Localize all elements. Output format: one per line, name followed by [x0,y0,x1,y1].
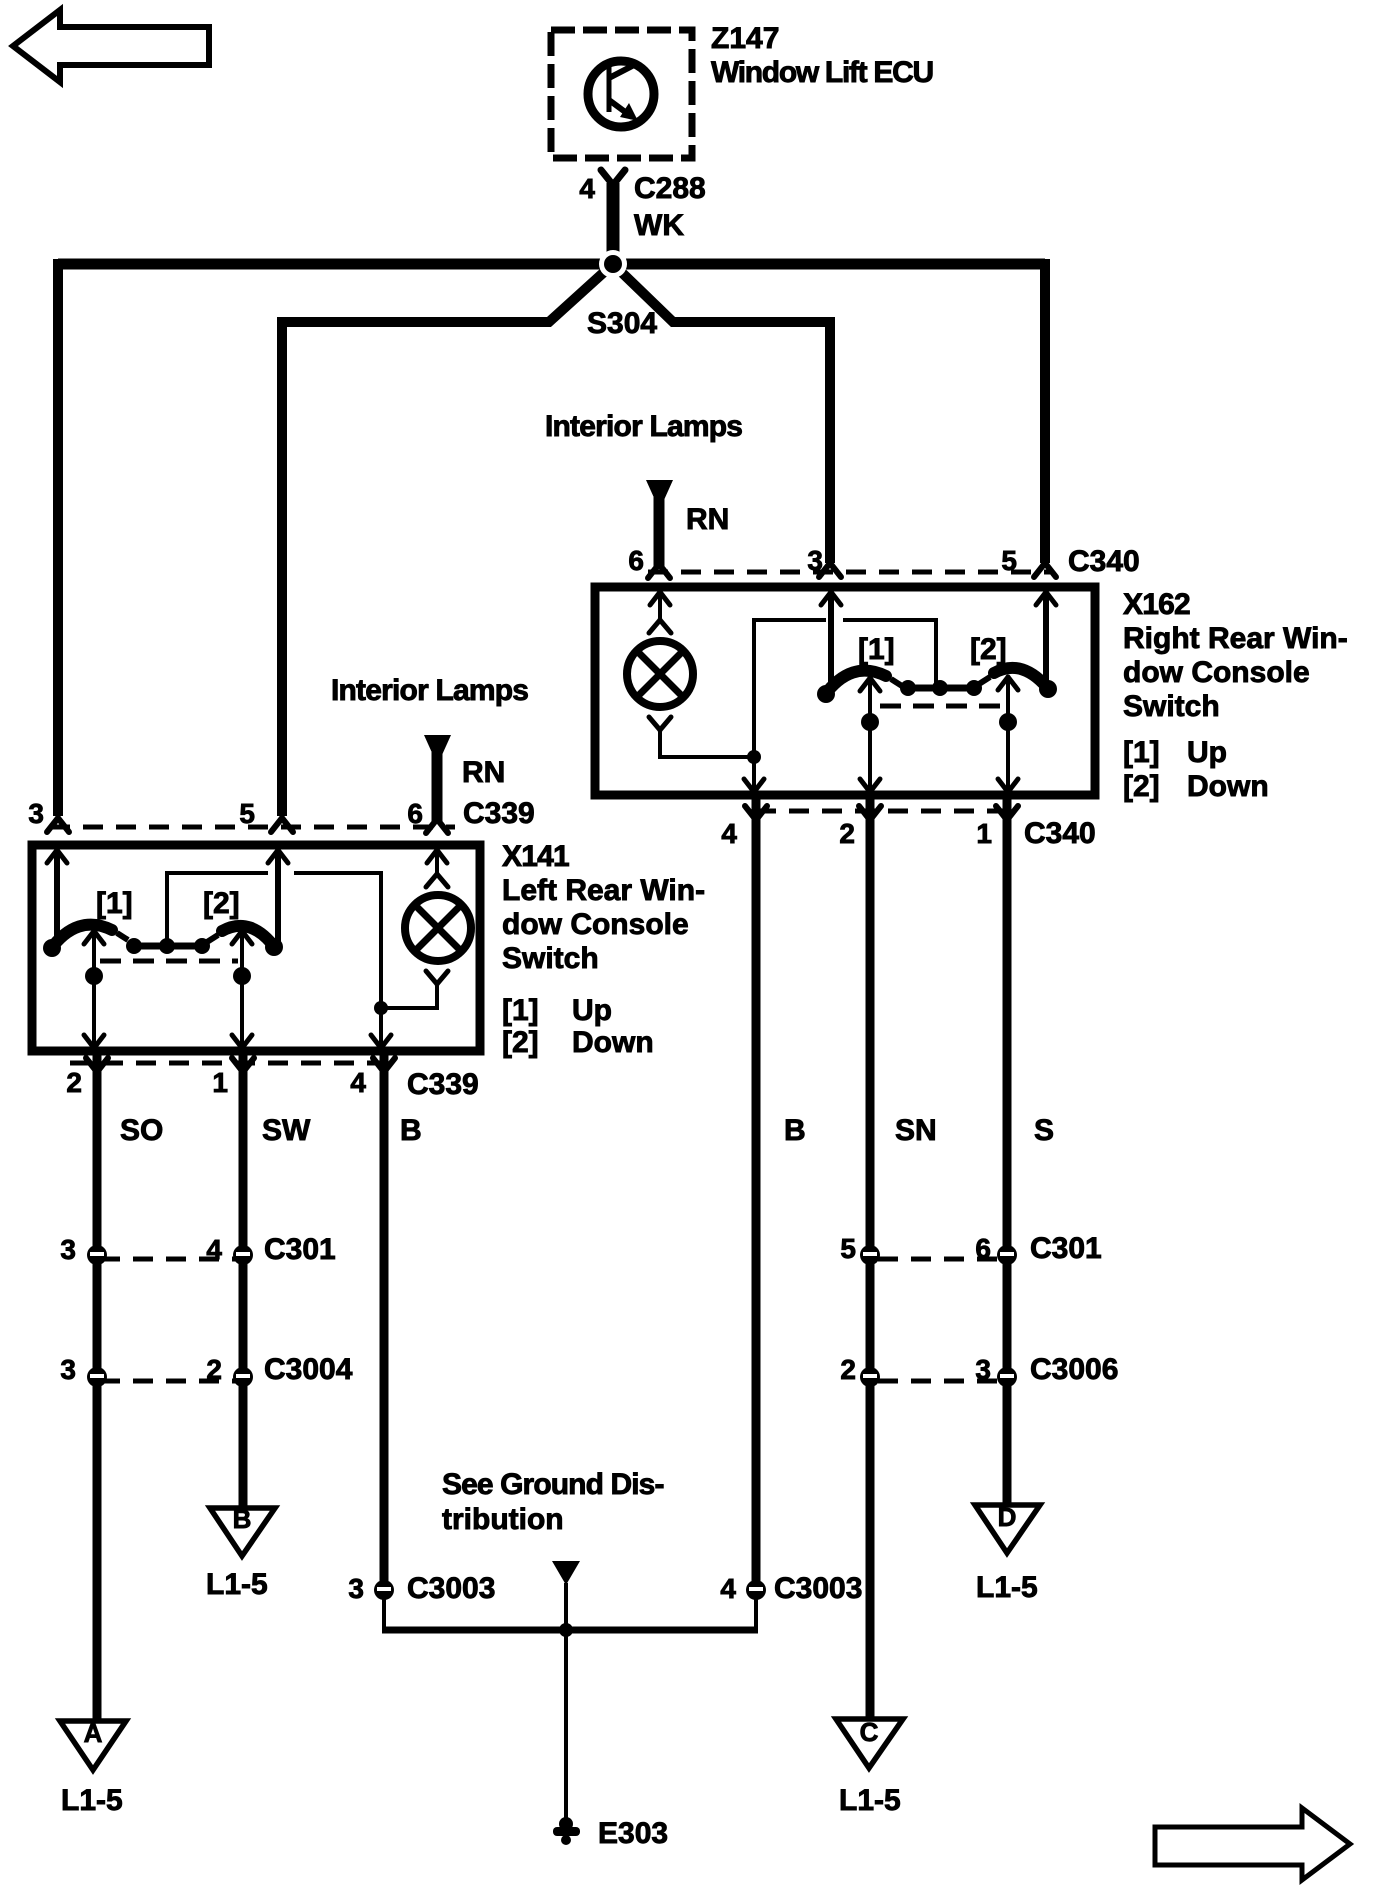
svg-text:WK: WK [634,209,684,242]
X162 lamp top chevron [649,620,671,633]
wire SW: X141 pin 1 to ground connector B [232,1053,254,1506]
pin 3 label C3006 [975,1354,991,1385]
connector C339 label (bottom) [407,1068,479,1101]
svg-text:C3003: C3003 [774,1572,862,1605]
X162 internal wire pin4 node to switch common [754,620,936,757]
connector C301 left ring pin 4 [233,1245,253,1265]
wire S: X162 pin 1 to ground connector D [996,797,1018,1503]
ground feed triangle above E303 [552,1561,580,1585]
connector C339 bottom dashed line [70,1061,395,1066]
svg-text:3: 3 [348,1573,364,1604]
pin 3 label C3004 [60,1354,76,1385]
connector C301 left ring pin 3 [87,1245,107,1265]
connector C3006 label [1030,1353,1118,1386]
X162 interior lamp symbol [627,641,693,707]
wire: ground bus from C3003 connectors [382,1583,758,1630]
svg-text:Switch: Switch [502,942,599,975]
off-page connector arrow (top left) [13,10,209,82]
ground point E303 symbol [553,1817,580,1845]
ground connector triangle C [836,1717,903,1768]
X162 switch contact [2] arc [994,668,1057,698]
connector C339 label (top) [463,797,535,830]
connector C3006 ring pin 3 [997,1367,1017,1387]
svg-text:Z147: Z147 [711,22,779,55]
X141 switch box outline [32,845,480,1051]
svg-text:5: 5 [239,798,255,829]
X162 switch box outline [595,587,1095,795]
svg-text:C301: C301 [1030,1232,1102,1265]
svg-text:A: A [84,1718,103,1748]
wire label SW [262,1114,311,1147]
svg-text:C: C [860,1717,879,1747]
label L1-5 (B) [206,1568,268,1601]
svg-text:C288: C288 [634,172,706,205]
pin 6 label C340 [628,545,644,576]
pin 1 label C340 bottom [976,818,992,849]
label E303 [598,1817,668,1850]
connector C301 label (right) [1030,1232,1102,1265]
wire label B (left) [400,1114,422,1147]
pin 2 label C339 bottom [66,1067,82,1098]
svg-text:tribution: tribution [442,1503,564,1536]
svg-text:C339: C339 [463,797,535,830]
connector C301 right ring pin 6 [997,1245,1017,1265]
svg-text:C301: C301 [264,1233,336,1266]
X141 pin 1 contact lever line [232,931,252,1048]
pin 3 label C339 [28,798,44,829]
pin 4 label C301 left [206,1234,222,1265]
svg-text:3: 3 [807,545,823,576]
svg-text:[2]: [2] [502,1026,539,1059]
X141 internal wire common to pin 4 [167,873,381,1008]
svg-text:RN: RN [686,503,729,536]
label Interior Lamps (right) [545,410,742,443]
X141 pin 5 internal feed [268,850,288,944]
svg-text:Window Lift ECU: Window Lift ECU [711,56,933,89]
X162 pin 3 internal feed [821,592,841,684]
pin 2 label C340 bottom [839,818,855,849]
svg-text:Up: Up [572,994,612,1027]
svg-text:C3003: C3003 [407,1572,495,1605]
svg-text:2: 2 [206,1354,222,1385]
svg-text:Right Rear Win-: Right Rear Win- [1123,622,1348,655]
svg-text:[1]: [1] [502,994,539,1027]
connector C339 top dashed line [50,825,455,830]
wire label WK [634,209,684,242]
X162 pin 6 internal arrow [650,592,670,620]
svg-text:Down: Down [572,1026,654,1059]
svg-text:C3006: C3006 [1030,1353,1118,1386]
connector C3003 left ring [374,1580,394,1600]
X162 lamp return wire to pin 4 node [660,728,754,757]
X162 internal node junction dot [747,750,761,764]
RN feed triangle (right) [646,480,673,500]
svg-text:See Ground Dis-: See Ground Dis- [442,1468,664,1501]
svg-text:RN: RN [462,756,505,789]
label S304 [587,307,657,340]
connector C3006 ring pin 2 [860,1367,880,1387]
pin 6 label C301 right [975,1233,991,1264]
svg-text:S304: S304 [587,307,657,340]
svg-text:D: D [998,1502,1017,1532]
svg-text:dow Console: dow Console [1123,656,1310,689]
svg-text:B: B [400,1114,422,1147]
svg-text:5: 5 [1001,545,1017,576]
X141 mechanical coupling dashed link [100,959,238,964]
wire label RN (left) [462,756,505,789]
connector C3006 dashed link [878,1379,1004,1384]
svg-text:C339: C339 [407,1068,479,1101]
svg-text:SO: SO [120,1114,163,1147]
wire: right bus drop to X162 pin 5 [1034,259,1056,577]
X141 pin 4 internal down arrow [371,1008,391,1048]
X162 label [2] [970,633,1007,666]
X141 pin 2 contact lever line [84,931,104,1048]
pin 2 label C3006 [840,1354,856,1385]
X141 switch dash [2] [207,935,218,942]
svg-text:4: 4 [350,1067,366,1098]
svg-text:6: 6 [975,1233,991,1264]
svg-text:B: B [784,1114,806,1147]
wire: RN stub to X162 pin 6 [648,497,670,578]
pin 4 label C3003 right [720,1573,736,1604]
label X141 block [502,840,705,1059]
pin 4 label (C288) [579,173,595,204]
svg-text:Interior Lamps: Interior Lamps [545,410,742,443]
svg-text:C340: C340 [1068,545,1140,578]
connector C3004 ring pin 3 [87,1367,107,1387]
label L1-5 (C) [839,1784,901,1817]
svg-text:6: 6 [628,545,644,576]
svg-text:L1-5: L1-5 [61,1784,123,1817]
ground connector triangle A [60,1718,126,1770]
ECU Z147 dashed box [551,30,692,158]
pin 5 label C340 [1001,545,1017,576]
svg-text:1: 1 [212,1067,228,1098]
wire: S304 branch to X141 pin 5 [271,264,613,832]
svg-text:Up: Up [1187,736,1227,769]
pin 4 label C340 bottom [721,818,737,849]
ground bus junction dot [559,1623,573,1637]
pin 3 label C340 [807,545,823,576]
svg-text:4: 4 [579,173,595,204]
svg-text:4: 4 [720,1573,736,1604]
X162 pin 2 contact lever line [860,678,880,792]
svg-text:6: 6 [407,798,423,829]
label L1-5 (D) [976,1571,1038,1604]
pin 5 label C301 right [840,1233,856,1264]
pin 1 label C339 bottom [212,1067,228,1098]
wire: RN stub to X141 pin 6 [426,752,448,833]
RN feed triangle (left) [424,735,451,755]
splice S304 junction dot [599,250,627,278]
connector C3004 dashed link [100,1379,240,1384]
label Z147 Window Lift ECU [711,22,933,89]
X162 switch dash [2] [979,677,990,684]
connector C3003 label (right) [774,1572,862,1605]
off-page connector arrow (bottom right) [1155,1808,1350,1880]
connector C288 label [634,172,706,205]
pin 5 label C339 [239,798,255,829]
X141 switch contact [1] arc [43,925,112,957]
svg-text:E303: E303 [598,1817,668,1850]
connector C3003 right ring [746,1580,766,1600]
wire: drop to ground point E303 [564,1630,568,1818]
connector C301 label (left) [264,1233,336,1266]
svg-text:4: 4 [721,818,737,849]
wire: C288 stub from ECU with female fork [601,170,625,256]
X141 lamp bottom chevron [426,971,448,984]
svg-text:L1-5: L1-5 [839,1784,901,1817]
svg-text:C340: C340 [1024,817,1096,850]
X162 lamp bottom chevron [649,717,671,730]
label Interior Lamps (left) [331,674,528,707]
svg-text:4: 4 [206,1234,222,1265]
svg-text:Down: Down [1187,770,1269,803]
X162 pin 1 contact lever line [998,677,1018,792]
X141 switch common contact bar [126,938,210,954]
svg-text:L1-5: L1-5 [976,1571,1038,1604]
svg-text:B: B [233,1504,252,1534]
svg-text:3: 3 [975,1354,991,1385]
svg-text:[2]: [2] [970,633,1007,666]
X141 pin 3 internal feed [47,850,67,938]
svg-text:[1]: [1] [96,887,133,920]
X162 mechanical coupling dashed link [880,704,1008,709]
svg-text:SW: SW [262,1114,311,1147]
ground connector triangle B [210,1504,275,1556]
svg-text:3: 3 [60,1234,76,1265]
X162 switch dash [1] [891,679,902,686]
X141 interior lamp symbol [405,895,471,961]
svg-text:3: 3 [60,1354,76,1385]
X141 switch contact [2] arc [222,926,283,956]
svg-text:[1]: [1] [858,633,895,666]
wire label S [1034,1114,1054,1147]
pin 4 label C339 bottom [350,1067,366,1098]
pin 3 label C3003 left [348,1573,364,1604]
svg-text:[2]: [2] [203,887,240,920]
svg-text:S: S [1034,1114,1054,1147]
ECU icon (circle with transistor symbol) [588,61,654,127]
connector C340 bottom dashed line [756,809,1006,814]
X162 switch contact [1] arc [817,671,886,703]
wire: S304 branch to X162 pin 3 [613,264,841,577]
connector C301 left dashed link [100,1257,240,1262]
svg-text:SN: SN [895,1114,937,1147]
X162 pin 5 internal feed [1036,592,1056,686]
svg-text:5: 5 [840,1233,856,1264]
connector C340 label (top) [1068,545,1140,578]
svg-text:Interior Lamps: Interior Lamps [331,674,528,707]
svg-text:2: 2 [840,1354,856,1385]
X141 lamp return wire to pin 4 node [381,982,437,1008]
svg-text:Switch: Switch [1123,690,1220,723]
X141 internal node junction dot [374,1001,388,1015]
wire: left bus drop to X141 pin 3 [47,259,69,832]
pin 6 label C339 [407,798,423,829]
wire B right: X162 pin 4 to C3003 [745,797,767,1586]
connector C301 right dashed link [878,1257,1004,1262]
connector C3004 label [264,1353,353,1386]
ground connector triangle D [975,1502,1040,1553]
wire label SO [120,1114,163,1147]
wire SO: X141 pin 2 to ground connector A [86,1053,108,1719]
connector C3003 label (left) [407,1572,495,1605]
svg-text:C3004: C3004 [264,1353,353,1386]
X141 pin 6 internal arrow [427,850,447,874]
svg-text:[1]: [1] [1123,736,1160,769]
X141 lamp top chevron [426,874,448,887]
X162 switch common contact bar [900,680,982,696]
wire label RN (right) [686,503,729,536]
label L1-5 (A) [61,1784,123,1817]
svg-text:[2]: [2] [1123,770,1160,803]
X141 label [2] [203,887,240,920]
pin 3 label C301 left [60,1234,76,1265]
connector C301 right ring pin 5 [860,1245,880,1265]
wire label SN [895,1114,937,1147]
svg-text:1: 1 [976,818,992,849]
wire label B (right) [784,1114,806,1147]
svg-text:dow Console: dow Console [502,908,689,941]
connector C340 top dashed line [648,570,1050,575]
wire: main bus horizontal (WK distribution) [58,259,1045,270]
wire B left: X141 pin 4 to C3003 [373,1053,395,1586]
svg-text:2: 2 [66,1067,82,1098]
X162 label [1] [858,633,895,666]
label See Ground Distribution [442,1468,664,1536]
X141 switch dash [1] [117,933,128,940]
svg-text:X162: X162 [1123,588,1190,621]
X162 pin 4 internal down arrow [744,757,764,792]
svg-text:Left Rear Win-: Left Rear Win- [502,874,705,907]
connector C3004 ring pin 2 [233,1367,253,1387]
wire SN: X162 pin 2 to ground connector C [859,797,881,1717]
label X162 block [1123,588,1348,803]
svg-text:X141: X141 [502,840,569,873]
pin 2 label C3004 [206,1354,222,1385]
svg-text:2: 2 [839,818,855,849]
svg-text:3: 3 [28,798,44,829]
connector C340 label (bottom) [1024,817,1096,850]
X141 label [1] [96,887,133,920]
svg-text:L1-5: L1-5 [206,1568,268,1601]
